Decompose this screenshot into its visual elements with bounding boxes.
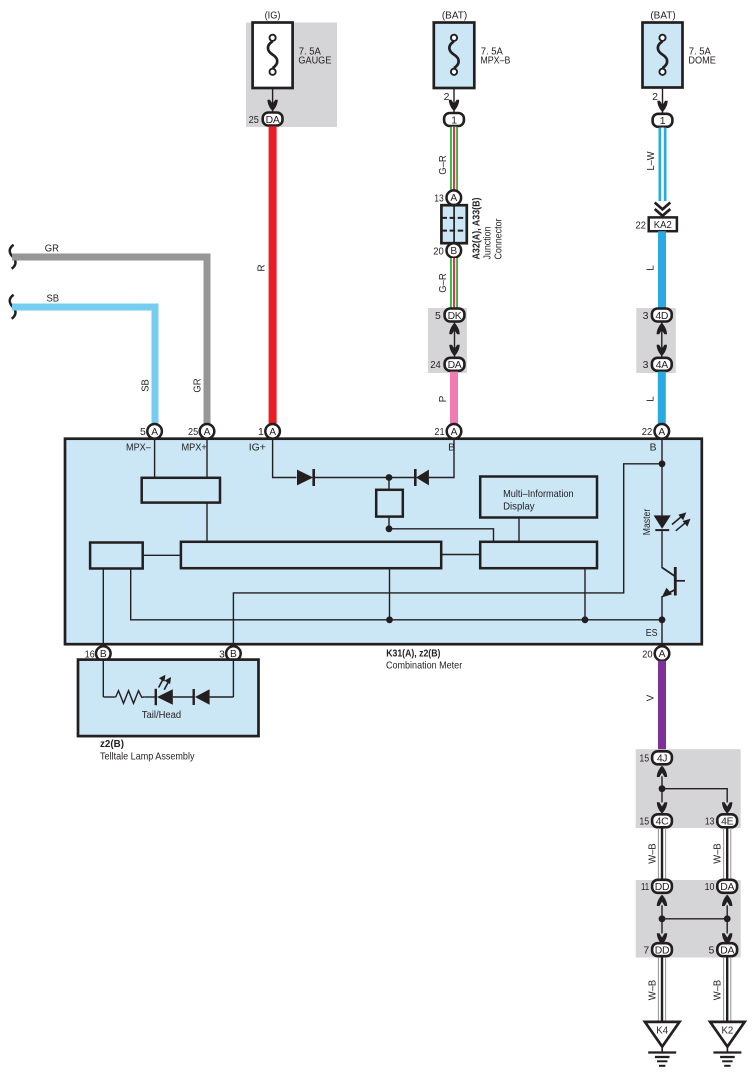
svg-text:24: 24 xyxy=(430,359,441,371)
pin A (21) xyxy=(447,424,462,439)
wire branch to 4E xyxy=(662,789,727,803)
connector arrow up into DA xyxy=(722,895,732,906)
node junction dot xyxy=(386,474,393,481)
svg-text:K4: K4 xyxy=(656,1026,668,1037)
pin A (1) xyxy=(265,424,280,439)
wire fuse DOME to connector 1 xyxy=(662,88,664,115)
svg-text:3: 3 xyxy=(643,359,649,371)
svg-text:DD: DD xyxy=(655,882,669,893)
node junction dot 2 xyxy=(386,525,393,532)
pin A (5) xyxy=(147,424,162,439)
pin stub MPX- xyxy=(154,439,156,478)
wire DD to DD xyxy=(661,905,663,933)
connector group 4J/4C/4E background xyxy=(636,749,741,828)
pin stub MPX+ xyxy=(206,439,208,478)
svg-text:4J: 4J xyxy=(657,754,667,765)
svg-text:DD: DD xyxy=(655,946,669,957)
svg-text:KA2: KA2 xyxy=(654,220,672,231)
wire right box down xyxy=(584,568,586,620)
svg-text:1: 1 xyxy=(660,116,666,127)
svg-text:MPX+: MPX+ xyxy=(182,442,207,453)
svg-text:W–B: W–B xyxy=(648,979,659,1000)
wire L upper segment xyxy=(658,231,666,308)
connector group DD/DA background xyxy=(636,880,741,958)
svg-text:GR: GR xyxy=(193,378,204,392)
svg-text:W–B: W–B xyxy=(648,843,659,864)
svg-text:L–W: L–W xyxy=(646,151,657,171)
connector arrow down into 4E xyxy=(722,802,732,813)
connector arrow down into 4C xyxy=(657,802,667,813)
connector 1 xyxy=(444,113,464,126)
diode D3 xyxy=(194,689,234,705)
connector DD (pin 11) xyxy=(652,880,672,893)
wire pin 16 xyxy=(102,569,104,698)
svg-text:R: R xyxy=(257,264,268,271)
svg-text:Multi–Information: Multi–Information xyxy=(503,489,574,500)
wire long box down xyxy=(389,568,391,620)
svg-text:25: 25 xyxy=(249,114,259,126)
svg-text:z2(B): z2(B) xyxy=(100,739,124,750)
svg-text:GR: GR xyxy=(45,244,59,255)
wire W-B left upper xyxy=(658,828,665,880)
svg-text:A: A xyxy=(659,649,666,660)
wire SB (sky blue) xyxy=(12,307,155,425)
svg-text:W–B: W–B xyxy=(713,979,724,1000)
connector 4J (pin 15) xyxy=(652,751,672,764)
connector arrow up into DD xyxy=(657,895,667,906)
svg-text:4C: 4C xyxy=(656,817,669,828)
svg-text:Junction: Junction xyxy=(483,227,494,260)
wire 4D to 4A with arrows xyxy=(657,323,667,357)
fuse 7.5A GAUGE xyxy=(253,23,332,89)
fuse 7.5A DOME xyxy=(643,23,717,88)
node dot xyxy=(582,616,589,623)
node B (junction connector pin 20) xyxy=(447,243,462,258)
node junction dot B xyxy=(659,460,666,467)
svg-text:G–R: G–R xyxy=(438,273,449,293)
svg-text:(BAT): (BAT) xyxy=(442,10,467,22)
interface box (MPX) xyxy=(142,478,220,503)
wire B pin 22 down to LED xyxy=(661,439,663,516)
connector 4C (pin 15) xyxy=(652,814,672,827)
wire node to logic box right xyxy=(389,529,494,542)
svg-text:15: 15 xyxy=(639,816,649,828)
wire regulator to node xyxy=(388,517,390,529)
svg-text:P: P xyxy=(438,395,449,402)
wire DK to DA with arrows xyxy=(449,323,459,357)
svg-text:IG+: IG+ xyxy=(249,442,266,453)
svg-text:15: 15 xyxy=(639,753,649,765)
junction connector name label xyxy=(472,198,505,260)
LED Tail/Head xyxy=(156,689,194,705)
LED light arrows xyxy=(159,675,171,690)
svg-text:GAUGE: GAUGE xyxy=(298,56,331,67)
wire break symbol SB xyxy=(10,295,16,319)
svg-text:MPX–: MPX– xyxy=(126,442,151,453)
svg-text:Telltale Lamp Assembly: Telltale Lamp Assembly xyxy=(100,752,195,763)
telltale lamp assembly box z2(B) xyxy=(78,660,259,737)
node dot xyxy=(386,616,393,623)
combination meter box K31(A), z2(B) xyxy=(65,439,702,645)
connector DD (pin 7) xyxy=(652,943,672,956)
svg-text:13: 13 xyxy=(434,193,444,205)
wire DA to DA xyxy=(726,905,728,933)
junction connector A32(A), A33(B) xyxy=(441,205,466,243)
wire B branch to pin 3 (B) xyxy=(233,464,662,697)
svg-text:DA: DA xyxy=(266,115,280,126)
LED Master xyxy=(654,515,671,568)
svg-text:Combination Meter: Combination Meter xyxy=(386,660,463,671)
svg-text:Tail/Head: Tail/Head xyxy=(142,710,182,721)
pin A (25) xyxy=(200,424,215,439)
svg-text:1: 1 xyxy=(451,115,457,126)
connector DA (pin 10) xyxy=(717,880,737,893)
svg-text:DOME: DOME xyxy=(688,56,716,67)
svg-text:DA: DA xyxy=(448,360,462,371)
wire MID to logic box xyxy=(518,518,520,542)
wire interface box to main box xyxy=(206,503,208,542)
wire G-R lower segment xyxy=(450,258,458,309)
LED light arrows xyxy=(672,512,691,530)
meter name label xyxy=(386,649,463,672)
diode D1 (IG+) xyxy=(297,469,389,486)
connector 4E (pin 13) xyxy=(717,814,737,827)
wire R (red) to IG+ xyxy=(269,126,277,438)
connector arrow into DA xyxy=(267,100,277,111)
wire fuse MPX-B to connector 1 xyxy=(453,88,455,113)
svg-text:Display: Display xyxy=(503,502,535,513)
node branch dot xyxy=(659,785,666,792)
svg-text:A: A xyxy=(204,427,211,438)
wire left box to long box xyxy=(143,554,181,556)
svg-text:A: A xyxy=(269,427,276,438)
ignition fuse block background xyxy=(246,23,337,128)
telltale name label xyxy=(100,739,195,763)
svg-text:MPX–B: MPX–B xyxy=(480,56,510,67)
resistor R1 xyxy=(103,691,155,704)
connector arrow into 1 xyxy=(449,100,459,111)
svg-text:ES: ES xyxy=(646,628,658,639)
svg-text:2: 2 xyxy=(444,91,450,103)
svg-text:4A: 4A xyxy=(656,360,668,371)
node dot right xyxy=(724,915,731,922)
svg-text:A32(A), A33(B): A32(A), A33(B) xyxy=(472,198,483,260)
svg-text:A: A xyxy=(450,193,457,204)
4D/4A connector pair background xyxy=(636,308,676,373)
pin B (3) xyxy=(226,646,241,661)
svg-text:11: 11 xyxy=(641,881,649,893)
connector arrow down into DD xyxy=(657,933,667,944)
connector arrow up into 4J xyxy=(657,766,667,777)
node dot ES xyxy=(659,616,666,623)
logic box main (long) xyxy=(181,542,441,568)
ground K4 xyxy=(645,1022,680,1066)
wire P (pink) xyxy=(450,372,458,425)
svg-text:21: 21 xyxy=(434,426,444,438)
connector 1 xyxy=(653,114,673,127)
wire L lower segment xyxy=(658,372,666,425)
svg-text:A: A xyxy=(451,427,458,438)
svg-text:20: 20 xyxy=(642,648,653,660)
wire W-B right upper xyxy=(724,828,731,880)
svg-text:2: 2 xyxy=(652,91,658,103)
svg-text:W–B: W–B xyxy=(713,843,724,864)
node dot left xyxy=(659,915,666,922)
svg-text:K31(A), z2(B): K31(A), z2(B) xyxy=(386,649,440,660)
pin A (22) xyxy=(655,424,670,439)
regulator box xyxy=(376,490,403,517)
svg-text:DK: DK xyxy=(448,311,462,322)
connector arrow down into DA xyxy=(722,933,732,944)
svg-text:B: B xyxy=(650,442,657,453)
svg-text:B: B xyxy=(450,246,457,257)
wire GR (gray) xyxy=(12,257,207,425)
pin A (20) xyxy=(655,646,670,661)
wire pin 3 stub inside telltale xyxy=(232,659,234,697)
fuse 7.5A MPX-B xyxy=(434,23,511,89)
wire cross link xyxy=(662,918,727,920)
svg-text:Master: Master xyxy=(642,508,653,535)
connector KA2 xyxy=(649,217,677,231)
wire IG+ to diode xyxy=(273,439,297,478)
wire W-B right lower xyxy=(724,957,731,1022)
connector 4A (pin 3) xyxy=(652,358,672,371)
svg-text:4D: 4D xyxy=(655,311,668,322)
svg-text:1: 1 xyxy=(258,426,264,438)
svg-text:5: 5 xyxy=(435,310,441,322)
svg-text:Connector: Connector xyxy=(494,218,505,260)
wire G-R upper segment xyxy=(450,127,458,191)
wire ES bus horizontal xyxy=(131,568,662,620)
svg-text:7: 7 xyxy=(643,945,649,957)
logic box left xyxy=(90,543,143,569)
Multi-Information Display box xyxy=(480,477,597,518)
svg-text:G–R: G–R xyxy=(438,155,449,175)
svg-text:13: 13 xyxy=(705,816,715,828)
svg-text:A: A xyxy=(151,427,158,438)
wire W-B left lower xyxy=(658,957,665,1022)
svg-text:5: 5 xyxy=(140,426,146,438)
svg-text:3: 3 xyxy=(643,310,649,322)
wire ES to pin 20 xyxy=(661,620,663,655)
svg-text:L: L xyxy=(646,265,657,271)
wire dot to regulator xyxy=(388,478,390,491)
wire long box to right box xyxy=(441,554,480,556)
ground K2 xyxy=(710,1022,745,1066)
svg-text:22: 22 xyxy=(636,219,647,231)
wire V (violet) xyxy=(658,661,666,752)
svg-text:SB: SB xyxy=(47,294,60,305)
double chevron into KA2 xyxy=(655,203,671,216)
svg-text:V: V xyxy=(646,694,657,701)
wire L-W (blue/white) xyxy=(659,128,667,202)
pin B (16) xyxy=(96,646,111,661)
wire break symbol GR xyxy=(10,245,16,269)
svg-text:DA: DA xyxy=(720,882,734,893)
svg-text:L: L xyxy=(646,396,657,402)
svg-text:A: A xyxy=(658,427,665,438)
svg-text:(IG): (IG) xyxy=(265,10,281,22)
connector arrow into 1 xyxy=(657,101,667,112)
logic box right xyxy=(480,542,597,568)
transistor Q1 xyxy=(662,567,685,620)
svg-text:4E: 4E xyxy=(721,817,733,828)
connector DA (pin 5) xyxy=(717,943,737,956)
node A (junction connector pin 13) xyxy=(447,190,462,205)
connector 4D (pin 3) xyxy=(652,309,672,322)
DK/DA connector pair background xyxy=(428,308,467,373)
svg-text:SB: SB xyxy=(141,379,152,392)
wire fuse GAUGE to connector DA xyxy=(272,88,274,113)
svg-text:22: 22 xyxy=(642,426,653,438)
connector DA (pin 24) xyxy=(445,358,465,371)
svg-text:25: 25 xyxy=(188,426,198,438)
wire pin 16 stub inside telltale xyxy=(102,659,104,697)
svg-text:K2: K2 xyxy=(722,1026,734,1037)
diode D2 (B) xyxy=(389,439,454,486)
svg-text:DA: DA xyxy=(720,946,734,957)
svg-text:10: 10 xyxy=(705,881,715,893)
svg-text:5: 5 xyxy=(709,945,715,957)
connector DA (pin 25) xyxy=(263,113,283,126)
svg-text:(BAT): (BAT) xyxy=(650,10,675,22)
svg-text:20: 20 xyxy=(433,245,444,257)
connector DK (pin 5) xyxy=(445,309,465,322)
wire 4J to branch node xyxy=(661,776,663,802)
